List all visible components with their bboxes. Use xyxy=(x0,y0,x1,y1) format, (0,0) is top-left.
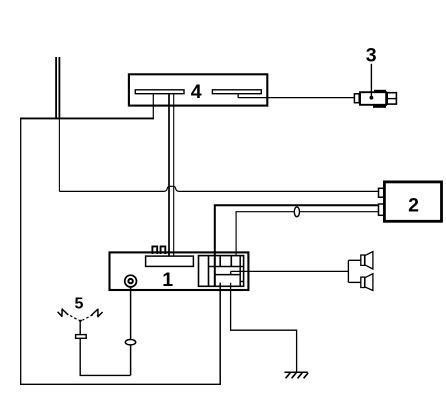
svg-text:2: 2 xyxy=(408,195,419,217)
wire: thin line of pair from unit 4 down to unit 1 xyxy=(173,94,175,259)
lamp element bar xyxy=(76,335,87,339)
svg-text:5: 5 xyxy=(74,295,83,312)
wire: drop from unit 4 left slot to bus xyxy=(152,94,154,120)
sensor 3 top key bar xyxy=(374,90,386,93)
relay divider V2 xyxy=(219,256,221,267)
control unit 1 box xyxy=(110,252,249,290)
wire: thin wire from unit 2 lower tab to relay pin xyxy=(236,212,379,256)
wire: relay bottom pin to bottom frame xyxy=(219,283,221,385)
wire: double feed line upper-left second, thick part xyxy=(58,57,60,118)
sensor 3 right connector block xyxy=(387,93,396,104)
wire: horn branch junction vertical xyxy=(347,260,349,282)
ground hatch 1 xyxy=(286,373,291,379)
wire: thin continuation down to horizontal wire toward unit 2 xyxy=(58,118,60,191)
wire: horizontal bus at y118 xyxy=(20,117,154,119)
wire: thin wire to unit 2 upper tab with hop over pair xyxy=(59,186,378,191)
ground hatch 3 xyxy=(298,373,303,379)
indicator flash arrowhead left xyxy=(61,308,64,311)
terminal circle in unit 1 xyxy=(125,275,137,287)
svg-text:4: 4 xyxy=(191,81,202,103)
indicator flash arrowhead right xyxy=(97,315,100,318)
sensor 3 bottom key bar xyxy=(373,105,386,108)
relay block inside unit 1 xyxy=(199,256,244,287)
wire: thick line of pair from unit 4 down to unit 1 xyxy=(168,94,170,259)
horn speaker top driver xyxy=(361,255,365,265)
wire: branch to top horn xyxy=(348,259,360,261)
ground symbol baseline xyxy=(285,371,308,373)
leader line for 3 xyxy=(370,64,372,98)
wire: relay bottom pin to ground xyxy=(231,283,297,372)
svg-text:1: 1 xyxy=(162,269,173,291)
sensor 3 right connector divider xyxy=(387,98,396,100)
unit 2 lower tab xyxy=(379,204,384,215)
horn speaker top cone xyxy=(365,252,373,269)
wire: lamp lead lower xyxy=(80,338,130,375)
dashed ray left xyxy=(66,313,78,320)
horn unit 2 box xyxy=(384,182,441,221)
relay divider H3 xyxy=(240,281,243,283)
terminal circle inner ring xyxy=(127,278,133,284)
wire: thick wire from unit 2 lower tab to relay pin xyxy=(215,205,379,286)
ground hatch 4 xyxy=(304,373,309,379)
indicator flash arrow left xyxy=(58,309,69,316)
wire: branch to bottom horn xyxy=(348,281,360,283)
dashed ray right xyxy=(83,315,93,320)
ground hatch 2 xyxy=(292,373,297,379)
wire: from unit 1 terminal down to lamp circuit xyxy=(130,286,132,375)
wire: from unit 4 right slot to sensor 3 xyxy=(238,94,354,98)
control unit 4 box xyxy=(129,74,267,105)
fuse clip right on top of unit 1 xyxy=(161,246,166,254)
wire: lamp lead upper xyxy=(79,323,81,335)
terminal circle pinhole xyxy=(129,280,131,282)
wire: double feed line upper-left thick xyxy=(55,57,57,119)
connector slot right of unit 4 xyxy=(212,90,261,94)
relay contact tick xyxy=(230,271,232,274)
lamp arrowhead junction xyxy=(78,320,82,323)
connector ellipse on lamp wire xyxy=(125,340,135,345)
wire: left frame vertical xyxy=(20,118,22,385)
relay divider V3 xyxy=(230,256,232,267)
relay divider H1 xyxy=(209,266,244,268)
sensor 3 body xyxy=(360,92,386,105)
fuse clip left on top of unit 1 xyxy=(152,246,157,254)
indicator flash arrow right xyxy=(91,309,103,316)
wire: relay output to horns xyxy=(231,270,349,272)
relay divider V5 right column xyxy=(239,256,241,287)
leader dot for 3 xyxy=(370,96,374,100)
unit 2 upper tab xyxy=(379,188,384,197)
connector slot in unit 1 xyxy=(146,256,194,266)
relay divider H2 xyxy=(215,274,240,276)
svg-text:3: 3 xyxy=(366,45,377,67)
connector ellipse on thin wire xyxy=(294,207,299,217)
sensor 3 left tab xyxy=(354,94,359,103)
connector slot left of unit 4 xyxy=(135,90,184,94)
relay divider V1 xyxy=(208,256,210,287)
wire: bottom frame horizontal xyxy=(20,383,221,385)
horn speaker bottom cone xyxy=(365,274,373,291)
horn speaker bottom driver xyxy=(361,277,365,287)
relay pin through lower section xyxy=(214,256,216,286)
